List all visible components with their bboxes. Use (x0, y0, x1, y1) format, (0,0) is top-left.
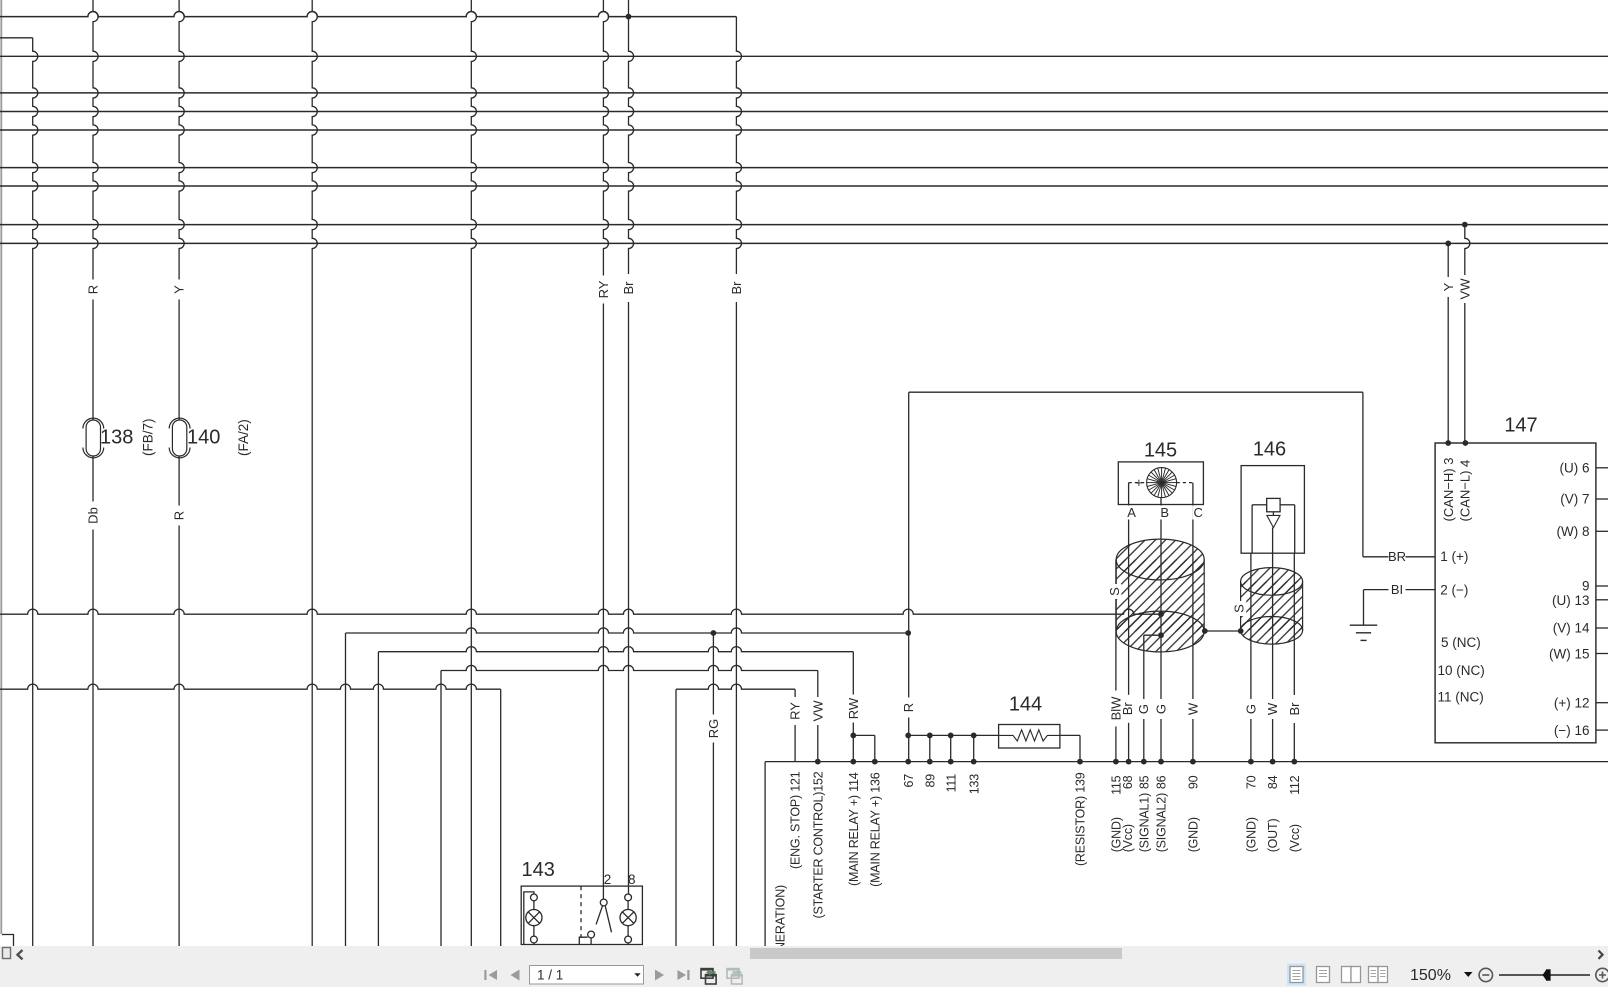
svg-text:10 (NC): 10 (NC) (1438, 663, 1485, 678)
svg-text:1 / 1: 1 / 1 (537, 967, 563, 982)
svg-text:VW: VW (1457, 278, 1472, 300)
svg-text:G: G (1244, 704, 1259, 714)
svg-text:138: 138 (100, 427, 133, 449)
svg-text:RY: RY (788, 702, 803, 720)
svg-text:(SIGNAL1): (SIGNAL1) (1137, 793, 1151, 852)
svg-text:Y: Y (172, 285, 187, 294)
svg-text:S: S (1232, 604, 1247, 613)
svg-text:144: 144 (1009, 694, 1042, 716)
svg-text:(MAIN RELAY +) 114: (MAIN RELAY +) 114 (847, 772, 861, 886)
svg-text:112: 112 (1288, 775, 1302, 795)
svg-text:11 (NC): 11 (NC) (1438, 690, 1484, 705)
svg-text:W: W (1265, 702, 1280, 715)
svg-text:(CAN−L) 4: (CAN−L) 4 (1458, 460, 1473, 522)
svg-text:(CAN−H) 3: (CAN−H) 3 (1441, 458, 1456, 522)
svg-text:8: 8 (628, 872, 636, 887)
svg-text:G: G (1136, 704, 1151, 714)
svg-text:90: 90 (1187, 775, 1201, 789)
svg-text:(STARTER CONTROL)152: (STARTER CONTROL)152 (811, 771, 825, 918)
svg-text:85: 85 (1137, 775, 1151, 789)
svg-text:Br: Br (1287, 702, 1302, 716)
svg-text:150%: 150% (1410, 967, 1451, 984)
svg-text:(FA/2): (FA/2) (236, 419, 251, 456)
svg-text:2: 2 (604, 872, 612, 887)
svg-text:BI: BI (1391, 582, 1403, 597)
svg-text:BR: BR (1388, 549, 1406, 564)
svg-text:NERATION): NERATION) (774, 885, 788, 946)
svg-text:B: B (1160, 505, 1169, 520)
svg-text:Br: Br (729, 281, 744, 295)
svg-text:(MAIN RELAY +) 136: (MAIN RELAY +) 136 (868, 772, 882, 887)
svg-text:R: R (172, 511, 187, 520)
svg-text:Br: Br (1120, 702, 1135, 716)
svg-text:145: 145 (1144, 440, 1177, 462)
svg-text:RY: RY (596, 280, 611, 298)
svg-text:(ENG. STOP) 121: (ENG. STOP) 121 (789, 771, 803, 869)
svg-text:(Vcc): (Vcc) (1121, 824, 1135, 852)
svg-text:67: 67 (902, 774, 916, 788)
svg-text:1 (+): 1 (+) (1440, 549, 1468, 564)
svg-text:(+) 12: (+) 12 (1554, 696, 1590, 711)
svg-text:86: 86 (1155, 775, 1169, 789)
svg-text:(GND): (GND) (1187, 817, 1201, 852)
svg-text:84: 84 (1266, 775, 1280, 789)
svg-text:111: 111 (944, 774, 958, 793)
svg-text:(−) 16: (−) 16 (1554, 723, 1590, 738)
svg-text:Db: Db (86, 507, 101, 524)
svg-text:Y: Y (1441, 282, 1456, 291)
svg-text:W: W (1186, 702, 1201, 715)
svg-text:A: A (1127, 505, 1136, 520)
svg-text:9: 9 (1582, 579, 1590, 594)
svg-text:143: 143 (522, 859, 555, 881)
svg-text:146: 146 (1253, 439, 1286, 461)
svg-text:(RESISTOR) 139: (RESISTOR) 139 (1074, 772, 1088, 866)
svg-text:(V) 14: (V) 14 (1553, 621, 1590, 636)
svg-text:(GND): (GND) (1245, 817, 1259, 852)
svg-text:(SIGNAL2): (SIGNAL2) (1155, 793, 1169, 852)
svg-text:R: R (901, 703, 916, 712)
svg-text:68: 68 (1121, 775, 1135, 789)
svg-text:C: C (1194, 505, 1203, 520)
svg-text:R: R (86, 285, 101, 294)
svg-text:2 (−): 2 (−) (1440, 582, 1468, 597)
svg-text:147: 147 (1504, 415, 1537, 437)
svg-text:RW: RW (846, 697, 861, 719)
svg-text:Br: Br (621, 281, 636, 295)
svg-text:(V) 7: (V) 7 (1560, 492, 1589, 507)
svg-text:89: 89 (923, 774, 937, 788)
svg-text:G: G (1154, 704, 1169, 714)
svg-text:VW: VW (810, 700, 825, 722)
svg-text:RG: RG (706, 719, 721, 739)
svg-text:70: 70 (1245, 775, 1259, 789)
svg-text:(U) 6: (U) 6 (1560, 461, 1590, 476)
svg-text:(U) 13: (U) 13 (1552, 593, 1590, 608)
svg-text:140: 140 (187, 427, 220, 449)
svg-text:5 (NC): 5 (NC) (1441, 635, 1481, 650)
svg-text:S: S (1107, 587, 1122, 596)
svg-text:+: + (1135, 476, 1142, 490)
svg-text:(FB/7): (FB/7) (140, 418, 155, 456)
svg-text:(W) 15: (W) 15 (1549, 646, 1590, 661)
svg-text:(Vcc): (Vcc) (1288, 824, 1302, 852)
svg-text:133: 133 (967, 774, 981, 795)
svg-text:(W) 8: (W) 8 (1557, 524, 1590, 539)
svg-text:(OUT): (OUT) (1266, 819, 1280, 853)
